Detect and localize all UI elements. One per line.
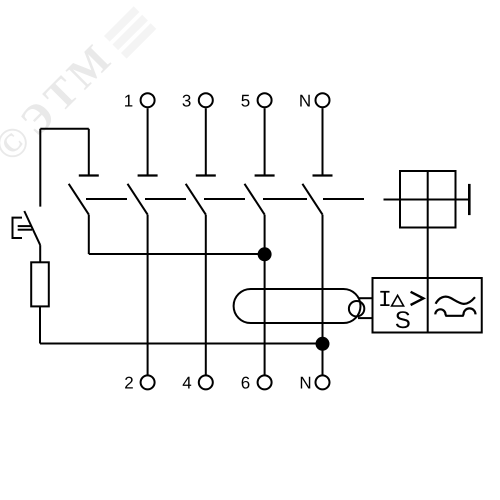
- svg-text:S: S: [395, 307, 411, 334]
- wire top-left horizontal: [40, 128, 89, 130]
- svg-text:©ЭТМ: ©ЭТМ: [0, 33, 123, 171]
- fixed contact T-bar pole 1: [138, 174, 158, 176]
- surge wave symbol bumps: [435, 308, 475, 315]
- test button T bracket: [13, 218, 23, 238]
- svg-text:1: 1: [124, 92, 133, 111]
- svg-text:4: 4: [182, 374, 191, 393]
- wire bottom horizontal to node on N: [40, 343, 323, 345]
- wire down to test button: [39, 129, 41, 207]
- svg-text:N: N: [299, 374, 311, 393]
- wire terminal N down: [322, 108, 324, 175]
- fixed contact T-bar pole N: [313, 174, 333, 176]
- wire pole 1 lower: [147, 215, 149, 375]
- test button pusher link: [18, 225, 32, 227]
- watermark ETM logo stripes: [104, 6, 156, 58]
- svg-text:2: 2: [124, 374, 133, 393]
- wire test pole lower: [88, 215, 90, 254]
- fixed contact T-bar pole 5: [255, 174, 275, 176]
- relay box vertical divider: [427, 171, 429, 228]
- label delta triangle: [392, 295, 404, 306]
- wire test pole up: [88, 129, 90, 176]
- svg-text:6: 6: [241, 374, 250, 393]
- wire pole 5 lower: [264, 215, 266, 375]
- label greater-than: [411, 292, 424, 305]
- svg-text:I: I: [378, 287, 392, 313]
- switch blade pole 5: [245, 184, 265, 215]
- trip unit box: [373, 278, 482, 333]
- winding lead top: [358, 297, 373, 299]
- switch blade pole 3: [186, 184, 206, 215]
- current transformer toroid: [234, 289, 361, 323]
- wire relay to trip unit: [427, 228, 429, 279]
- fixed contact T-bar pole 3: [196, 174, 216, 176]
- wire terminal 1 down: [147, 108, 149, 175]
- junction node on N: [316, 337, 330, 351]
- switch blade pole 1: [128, 184, 148, 215]
- winding lead bottom: [358, 317, 373, 319]
- svg-text:3: 3: [182, 92, 191, 111]
- trip unit divider: [427, 278, 429, 333]
- test button blade: [24, 211, 40, 245]
- fixed contact T-bar test pole: [79, 174, 99, 176]
- secondary winding circle: [349, 301, 364, 316]
- relay horizontal axis wire: [384, 199, 469, 201]
- wire pole N lower: [322, 215, 324, 375]
- terminal 3 circle: [199, 93, 213, 107]
- terminal 4 circle: [199, 375, 213, 389]
- terminal 5 circle: [258, 93, 272, 107]
- wire terminal 3 down: [205, 108, 207, 175]
- resistor R test: [31, 262, 49, 306]
- terminal 1 circle: [141, 93, 155, 107]
- terminal N bottom circle: [316, 375, 330, 389]
- trip coil relay box: [400, 171, 456, 228]
- wire resistor down: [39, 306, 41, 343]
- wire pole 3 lower: [205, 215, 207, 375]
- switch blade test pole: [69, 184, 89, 215]
- switch blade pole N: [302, 184, 322, 215]
- mechanical linkage dashed line: [86, 198, 364, 200]
- relay armature bar: [468, 184, 471, 215]
- terminal N top circle: [316, 93, 330, 107]
- terminal 6 circle: [258, 375, 272, 389]
- svg-text:5: 5: [241, 92, 250, 111]
- junction node on pole 5: [258, 247, 272, 261]
- surge wave symbol tilde: [436, 297, 475, 304]
- wire test tap horizontal to node on pole 5: [89, 253, 265, 255]
- terminal 2 circle: [141, 375, 155, 389]
- wire button to resistor: [39, 245, 41, 262]
- svg-text:N: N: [299, 92, 311, 111]
- wire terminal 5 down: [264, 108, 266, 175]
